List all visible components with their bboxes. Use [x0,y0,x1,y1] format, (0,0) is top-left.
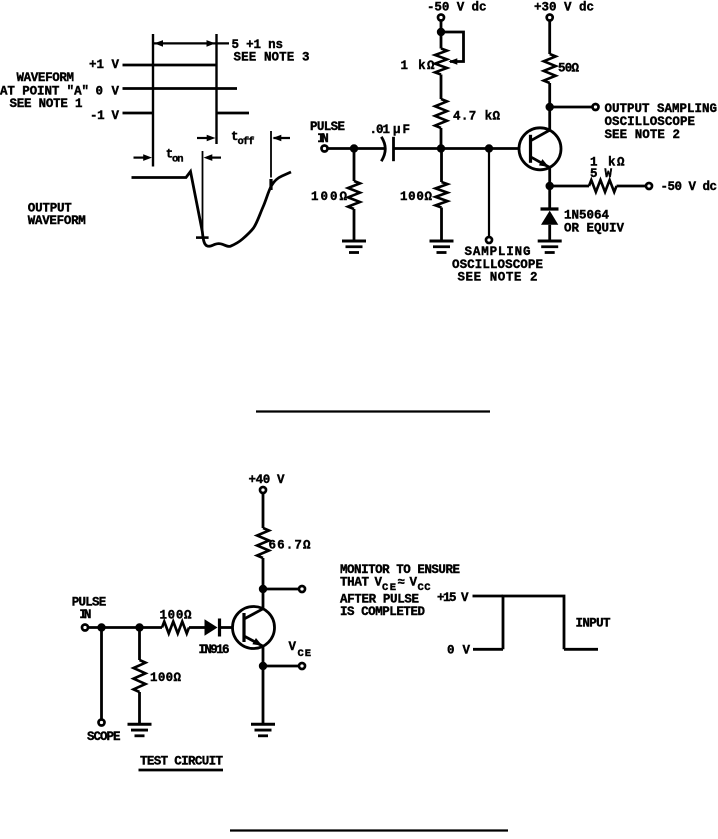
ground below D1 [538,240,562,243]
resistor R6 1 kohm 5W [589,180,617,192]
wire D2 to base Q2 [221,626,233,629]
terminal V_CE [299,663,305,669]
svg-text:0 V: 0 V [96,85,120,99]
svg-text:+40 V: +40 V [249,473,285,487]
terminal -50 V dc (top) [438,15,444,21]
transistor Q1 base bar [529,135,532,163]
terminal collector monitor [299,586,305,592]
resistor R7 66.7 ohm [257,528,269,558]
svg-text:OSCILLOSCOPE: OSCILLOSCOPE [605,115,696,129]
transistor Q2 emitter arrow [252,638,262,646]
svg-text:100Ω: 100Ω [311,190,347,204]
wire R8 to D2 [189,626,205,629]
svg-text:V: V [410,576,418,590]
wire R7 to collector node [262,558,265,609]
wire +40V to R7 [262,494,265,529]
resistor R8 100 ohm series [162,622,189,634]
ground below emitter Q2 [251,723,275,726]
resistor R5 50 ohm [544,54,556,83]
input pulse waveform [503,596,564,649]
divider line bottom [230,829,508,831]
node junction at 100ohm shunt [350,144,358,152]
resistor R2 100 ohm [436,182,448,208]
svg-text:100Ω: 100Ω [400,190,432,204]
svg-text:66.7Ω: 66.7Ω [269,539,311,553]
diode D1 cathode bar [541,207,559,210]
capacitor C1 .01uF curved plate [381,137,385,161]
svg-text:.01: .01 [370,123,391,137]
diode D2 cathode bar [218,619,221,637]
svg-text:1 kΩ: 1 kΩ [401,59,435,73]
arrow t_on right [212,157,221,159]
terminal +40 V [260,487,266,493]
node junction emitter Q2 [259,662,267,670]
svg-text:WAVEFORM: WAVEFORM [17,71,75,85]
wire emitter Q2 down [262,647,265,724]
transistor Q1 collector lead [531,130,550,141]
terminal pulse in (bottom) [82,625,88,631]
diode D2 IN916 triangle [205,619,218,635]
wire R9 to ground [138,692,141,723]
wire pulse-in to diode D2 [88,626,162,629]
wire node up to R3 [440,128,443,149]
terminal pulse in (top circuit) [322,146,328,152]
svg-text:IN: IN [317,132,329,146]
wire +30V to collector [548,21,551,54]
svg-text:SAMPLING: SAMPLING [465,245,531,259]
arrow t_off left [197,137,208,139]
svg-text:CC: CC [418,582,432,594]
tick crossing output curve [269,179,272,190]
terminal scope [99,720,105,726]
transistor Q2 emitter lead [244,636,263,646]
wire -1V level left segment [123,112,154,115]
divider line middle [256,410,490,412]
wire node down to R1 [353,149,356,182]
transistor Q2 collector lead [244,609,263,619]
wire D1 to ground [548,225,551,240]
svg-text:+15 V: +15 V [437,591,469,605]
potentiometer R4 1 kohm [435,49,447,75]
node junction scope tap [97,623,105,631]
svg-text:µF: µF [393,123,410,137]
wire 0V baseline right [564,648,598,651]
diode D1 1N5064 triangle [541,211,558,225]
wire -50V terminal to R4 [440,21,443,49]
svg-text:SEE NOTE 2: SEE NOTE 2 [605,128,681,142]
terminal output sampling oscilloscope [593,104,599,110]
svg-text:5 W: 5 W [590,167,612,181]
node junction shunt R9 tap [135,623,143,631]
arrow t_on left [134,157,145,159]
node junction rheostat tie [437,28,445,36]
svg-text:-50 V dc: -50 V dc [427,1,487,15]
svg-text:off: off [238,136,255,148]
transistor Q1 circle [519,128,561,170]
terminal +30 V dc [547,15,553,21]
terminal -50 V dc (right) [646,183,652,189]
node junction under 4.7k [437,144,445,152]
svg-text:on: on [172,154,184,166]
transistor Q2 circle [233,607,275,649]
transistor Q1 emitter arrow [539,159,549,167]
reference line t_off at output recovery [270,131,272,178]
wire capacitor to base node [394,147,520,150]
wire R2 to ground [440,208,443,241]
svg-text:TEST CIRCUIT: TEST CIRCUIT [140,755,223,769]
wire 0V level line [123,87,238,90]
transistor Q1 emitter lead [531,157,550,168]
node junction collector output [546,103,554,111]
svg-text:IS COMPLETED: IS COMPLETED [340,605,425,619]
svg-text:-50 V dc: -50 V dc [661,180,718,194]
wire tap down to sampling scope [488,149,490,237]
node junction collector Q2 [259,585,267,593]
wire +1V level and pulse top [123,64,217,67]
svg-text:IN: IN [79,608,91,622]
svg-text:+1 V: +1 V [89,58,119,72]
tick at bottom of t_on reference [196,236,209,239]
wire collector node to output terminal [550,106,592,109]
wire 0V baseline left [473,648,503,651]
wire pulse-in to capacitor [328,147,386,150]
node junction sampling scope tap [485,144,493,152]
output waveform curve [132,172,292,247]
node junction emitter [546,182,554,190]
wire emitter node to R6 [550,185,589,188]
wire emitter node to VCE terminal [263,665,299,668]
svg-text:SEE NOTE 3: SEE NOTE 3 [234,51,310,65]
wire scope tap down [100,628,103,719]
terminal sampling oscilloscope [486,237,492,243]
wire -1V level right segment [217,112,250,115]
reference line t_on at output fall [202,151,204,237]
svg-text:IN916: IN916 [199,643,230,657]
svg-text:0 V: 0 V [447,644,470,658]
reference line pulse rising edge [152,34,154,167]
svg-text:SEE NOTE 1: SEE NOTE 1 [10,97,83,111]
wire R6 to -50V terminal [617,185,646,188]
svg-text:CE: CE [298,648,312,660]
svg-text:4.7 kΩ: 4.7 kΩ [453,110,500,124]
dimension line 5ns width [153,42,229,44]
wire node down to R2 [440,149,443,183]
ground below R2 [430,240,454,243]
svg-text:V: V [289,640,297,654]
wire rheostat loop [441,32,464,62]
transistor Q2 base bar [242,613,245,642]
resistor R9 100 ohm shunt [134,660,146,692]
wiper arrow of potentiometer [449,58,458,65]
wire collector node to terminal [263,588,299,591]
resistor R1 100 ohm shunt [348,181,360,209]
svg-text:SEE NOTE 2: SEE NOTE 2 [458,271,538,285]
svg-text:100Ω: 100Ω [150,671,181,685]
svg-text:SCOPE: SCOPE [87,730,121,744]
ground below R1 [342,240,366,243]
wire emitter down to diode [548,167,551,208]
svg-text:WAVEFORM: WAVEFORM [28,214,86,228]
svg-text:OR EQUIV: OR EQUIV [564,222,624,236]
svg-text:INPUT: INPUT [576,617,611,631]
svg-text:THAT: THAT [340,576,369,590]
arrowhead right of 5ns dimension [207,40,216,47]
arrow t_off right [274,137,291,139]
wire R5 to collector [548,83,551,131]
svg-text:50Ω: 50Ω [558,62,579,76]
wire +15V reference line [473,595,504,598]
wire R9 tap down [138,628,141,661]
svg-text:100Ω: 100Ω [160,609,192,623]
reference line pulse falling edge [215,34,217,144]
wire R3 to R4 potentiometer [440,75,443,100]
svg-text:+30 V dc: +30 V dc [534,1,594,15]
svg-text:-1 V: -1 V [90,109,119,123]
svg-text:≈: ≈ [398,576,406,590]
capacitor C1 straight plate [392,137,395,161]
ground below R9 [128,723,152,726]
svg-text:OUTPUT SAMPLING: OUTPUT SAMPLING [605,102,718,116]
wire R1 to ground [353,209,356,240]
svg-text:1N5064: 1N5064 [564,209,609,223]
arrowhead left of 5ns dimension [154,40,163,47]
resistor R3 4.7 kohm [435,99,447,128]
